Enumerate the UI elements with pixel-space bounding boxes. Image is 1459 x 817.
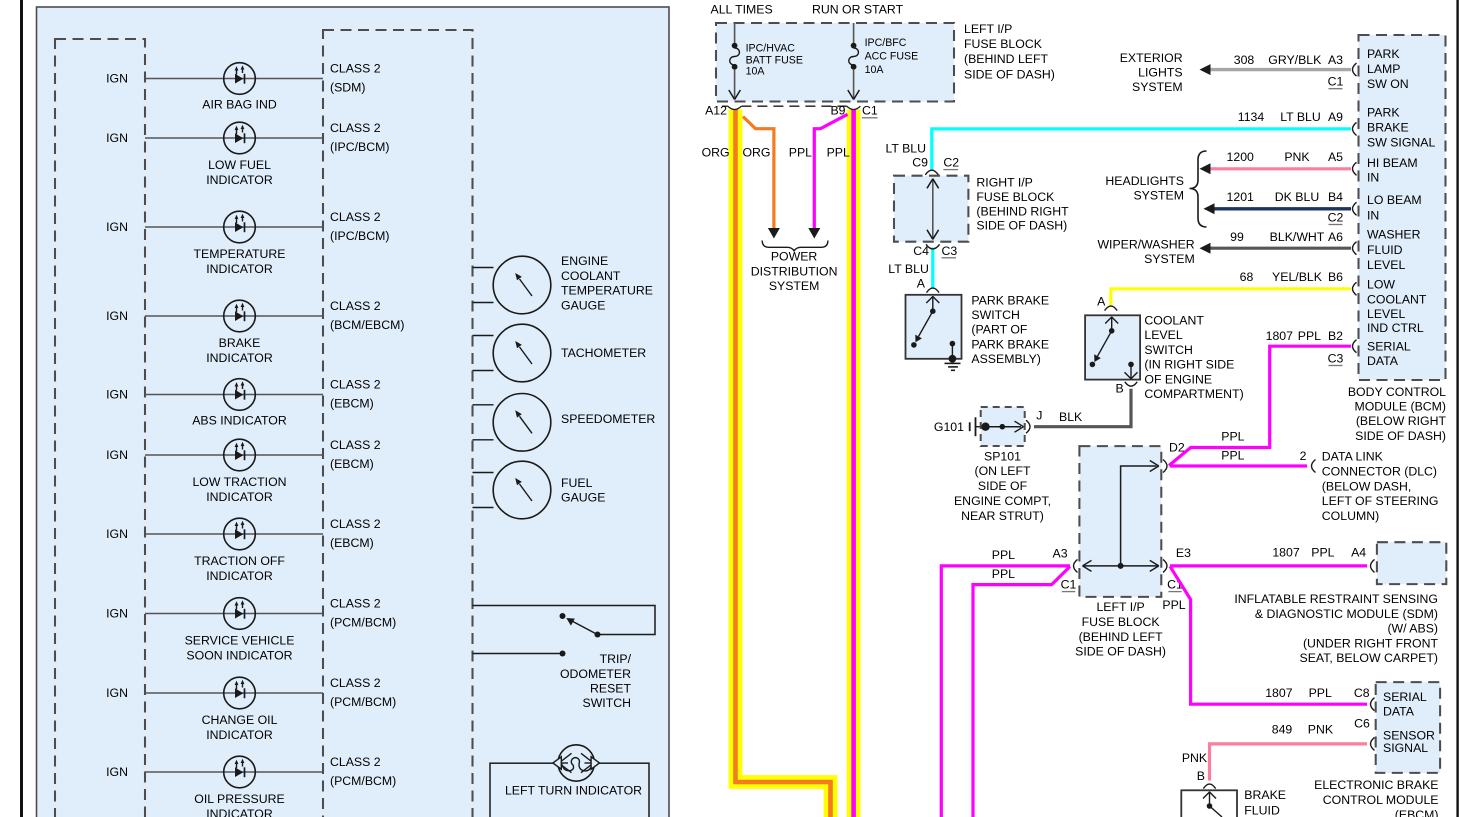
- svg-text:CLASS 2: CLASS 2: [330, 755, 381, 769]
- svg-text:B4: B4: [1328, 190, 1343, 204]
- svg-text:LEVEL: LEVEL: [1144, 328, 1182, 342]
- svg-text:POWER: POWER: [771, 250, 818, 264]
- svg-text:SIDE OF DASH): SIDE OF DASH): [1075, 645, 1166, 659]
- svg-text:CLASS 2: CLASS 2: [330, 210, 381, 224]
- svg-text:SYSTEM: SYSTEM: [769, 279, 820, 293]
- svg-text:IN: IN: [1367, 171, 1379, 185]
- svg-text:ACC FUSE: ACC FUSE: [865, 50, 919, 62]
- svg-text:(SDM): (SDM): [330, 81, 366, 95]
- svg-text:BLK: BLK: [1059, 410, 1083, 424]
- svg-text:ODOMETER: ODOMETER: [560, 667, 631, 681]
- svg-text:(IPC/BCM): (IPC/BCM): [330, 140, 389, 154]
- svg-text:1134: 1134: [1238, 110, 1265, 124]
- svg-text:(EBCM): (EBCM): [1395, 808, 1439, 817]
- svg-text:ENGINE: ENGINE: [561, 254, 608, 268]
- svg-text:IGN: IGN: [106, 607, 128, 621]
- svg-text:C1: C1: [1061, 578, 1077, 592]
- svg-text:A: A: [917, 276, 926, 290]
- svg-text:IND CTRL: IND CTRL: [1367, 321, 1424, 335]
- svg-text:PPL: PPL: [992, 548, 1015, 562]
- svg-text:PPL: PPL: [1221, 448, 1244, 462]
- svg-text:FUSE BLOCK: FUSE BLOCK: [964, 37, 1043, 51]
- svg-text:IGN: IGN: [106, 131, 128, 145]
- svg-text:CONNECTOR (DLC): CONNECTOR (DLC): [1322, 464, 1437, 478]
- svg-text:BRAKE: BRAKE: [1367, 121, 1409, 135]
- svg-text:COOLANT: COOLANT: [1367, 293, 1427, 307]
- svg-text:LEFT OF STEERING: LEFT OF STEERING: [1322, 494, 1439, 508]
- svg-text:A6: A6: [1328, 230, 1343, 244]
- svg-text:SERVICE VEHICLE: SERVICE VEHICLE: [185, 634, 295, 648]
- svg-text:FUEL: FUEL: [561, 476, 593, 490]
- svg-text:LOW FUEL: LOW FUEL: [208, 158, 271, 172]
- svg-text:(PCM/BCM): (PCM/BCM): [330, 616, 396, 630]
- svg-text:(IN RIGHT SIDE: (IN RIGHT SIDE: [1144, 358, 1234, 372]
- svg-text:OF ENGINE: OF ENGINE: [1144, 372, 1212, 386]
- svg-text:99: 99: [1230, 230, 1244, 244]
- svg-text:(IPC/BCM): (IPC/BCM): [330, 229, 389, 243]
- svg-text:COLUMN): COLUMN): [1322, 509, 1379, 523]
- svg-text:J: J: [1036, 409, 1042, 423]
- svg-text:B: B: [1197, 769, 1205, 783]
- svg-text:FUSE BLOCK: FUSE BLOCK: [976, 190, 1055, 204]
- svg-text:LEFT I/P: LEFT I/P: [1096, 600, 1144, 614]
- svg-text:SIGNAL: SIGNAL: [1383, 741, 1428, 755]
- svg-text:IGN: IGN: [106, 220, 128, 234]
- svg-text:SIDE OF DASH): SIDE OF DASH): [976, 219, 1067, 233]
- svg-text:IPC/HVAC: IPC/HVAC: [746, 42, 796, 54]
- svg-text:SEAT, BELOW CARPET): SEAT, BELOW CARPET): [1300, 651, 1438, 665]
- svg-text:C1: C1: [862, 104, 878, 118]
- svg-text:RESET: RESET: [590, 681, 631, 695]
- svg-text:IN: IN: [1367, 209, 1379, 223]
- svg-text:2: 2: [1300, 449, 1307, 463]
- svg-text:(EBCM): (EBCM): [330, 536, 374, 550]
- svg-text:A4: A4: [1351, 545, 1366, 559]
- svg-text:LOW: LOW: [1367, 278, 1395, 292]
- svg-text:68: 68: [1240, 270, 1254, 284]
- svg-text:AIR BAG IND: AIR BAG IND: [202, 98, 277, 112]
- svg-text:PPL: PPL: [1311, 545, 1334, 559]
- svg-text:TEMPERATURE: TEMPERATURE: [193, 247, 285, 261]
- svg-text:TRACTION OFF: TRACTION OFF: [194, 554, 285, 568]
- svg-text:DATA: DATA: [1367, 354, 1399, 368]
- svg-text:1201: 1201: [1227, 190, 1255, 204]
- svg-text:A12: A12: [705, 104, 727, 118]
- svg-text:849: 849: [1272, 723, 1293, 737]
- svg-text:IGN: IGN: [106, 765, 128, 779]
- svg-text:TEMPERATURE: TEMPERATURE: [561, 284, 653, 298]
- svg-text:LAMP: LAMP: [1367, 62, 1401, 76]
- svg-text:INDICATOR: INDICATOR: [206, 728, 273, 742]
- svg-text:A: A: [1097, 295, 1106, 309]
- svg-text:FLUID: FLUID: [1367, 243, 1403, 257]
- svg-text:PPL: PPL: [1221, 430, 1244, 444]
- svg-text:INDICATOR: INDICATOR: [206, 173, 273, 187]
- svg-text:SW ON: SW ON: [1367, 77, 1409, 91]
- svg-text:& DIAGNOSTIC MODULE (SDM): & DIAGNOSTIC MODULE (SDM): [1255, 607, 1438, 621]
- svg-text:WASHER: WASHER: [1367, 228, 1421, 242]
- svg-text:B6: B6: [1328, 270, 1343, 284]
- svg-text:IGN: IGN: [106, 309, 128, 323]
- svg-text:ASSEMBLY): ASSEMBLY): [971, 352, 1040, 366]
- svg-text:(PCM/BCM): (PCM/BCM): [330, 695, 396, 709]
- svg-text:DATA LINK: DATA LINK: [1322, 450, 1384, 464]
- svg-text:G101: G101: [934, 420, 964, 434]
- svg-text:A3: A3: [1053, 547, 1068, 561]
- svg-text:CLASS 2: CLASS 2: [330, 378, 381, 392]
- svg-text:DISTRIBUTION: DISTRIBUTION: [751, 264, 838, 278]
- svg-text:WIPER/WASHER: WIPER/WASHER: [1097, 237, 1194, 251]
- svg-text:IGN: IGN: [106, 448, 128, 462]
- svg-text:INDICATOR: INDICATOR: [206, 490, 273, 504]
- svg-text:CHANGE OIL: CHANGE OIL: [202, 713, 278, 727]
- svg-text:TRIP/: TRIP/: [600, 652, 632, 666]
- svg-text:ABS INDICATOR: ABS INDICATOR: [192, 414, 287, 428]
- svg-text:C2: C2: [943, 156, 959, 170]
- svg-text:(BEHIND LEFT: (BEHIND LEFT: [1079, 630, 1164, 644]
- svg-text:CLASS 2: CLASS 2: [330, 121, 381, 135]
- svg-text:ALL TIMES: ALL TIMES: [711, 2, 773, 16]
- svg-text:CLASS 2: CLASS 2: [330, 676, 381, 690]
- svg-text:D2: D2: [1169, 440, 1185, 454]
- svg-text:(BEHIND RIGHT: (BEHIND RIGHT: [976, 204, 1069, 218]
- svg-text:(W/ ABS): (W/ ABS): [1387, 622, 1438, 636]
- svg-text:INDICATOR: INDICATOR: [206, 351, 273, 365]
- svg-text:A9: A9: [1328, 110, 1343, 124]
- svg-text:COOLANT: COOLANT: [561, 269, 621, 283]
- svg-text:C3: C3: [942, 244, 958, 258]
- svg-text:MODULE (BCM): MODULE (BCM): [1354, 400, 1446, 414]
- svg-text:(EBCM): (EBCM): [330, 397, 374, 411]
- svg-text:E3: E3: [1176, 546, 1191, 560]
- svg-text:PPL: PPL: [1162, 598, 1185, 612]
- svg-text:BODY CONTROL: BODY CONTROL: [1348, 385, 1446, 399]
- svg-text:INDICATOR: INDICATOR: [206, 569, 273, 583]
- svg-text:1200: 1200: [1227, 150, 1255, 164]
- svg-text:SIDE OF DASH): SIDE OF DASH): [964, 67, 1055, 81]
- svg-text:PARK BRAKE: PARK BRAKE: [971, 337, 1049, 351]
- svg-text:CLASS 2: CLASS 2: [330, 597, 381, 611]
- svg-text:HEADLIGHTS: HEADLIGHTS: [1105, 174, 1184, 188]
- svg-text:(PCM/BCM): (PCM/BCM): [330, 774, 396, 788]
- svg-text:SIDE OF DASH): SIDE OF DASH): [1355, 429, 1446, 443]
- svg-text:PARK BRAKE: PARK BRAKE: [971, 294, 1049, 308]
- svg-text:SERIAL: SERIAL: [1367, 340, 1411, 354]
- svg-text:FLUID: FLUID: [1244, 804, 1280, 817]
- svg-text:PNK: PNK: [1284, 150, 1310, 164]
- svg-text:LIGHTS: LIGHTS: [1138, 66, 1182, 80]
- svg-text:(EBCM): (EBCM): [330, 457, 374, 471]
- svg-text:INFLATABLE RESTRAINT SENSING: INFLATABLE RESTRAINT SENSING: [1234, 592, 1438, 606]
- svg-text:LOW TRACTION: LOW TRACTION: [192, 475, 286, 489]
- svg-text:C9: C9: [912, 156, 928, 170]
- svg-text:SWITCH: SWITCH: [583, 696, 632, 710]
- svg-text:CLASS 2: CLASS 2: [330, 438, 381, 452]
- svg-text:LEVEL: LEVEL: [1367, 258, 1405, 272]
- svg-text:CLASS 2: CLASS 2: [330, 62, 381, 76]
- svg-text:IGN: IGN: [106, 686, 128, 700]
- svg-text:PPL: PPL: [827, 145, 850, 159]
- svg-text:SYSTEM: SYSTEM: [1132, 80, 1183, 94]
- svg-text:SPEEDOMETER: SPEEDOMETER: [561, 412, 655, 426]
- svg-text:PARK: PARK: [1367, 106, 1400, 120]
- svg-text:(ON LEFT: (ON LEFT: [974, 464, 1031, 478]
- svg-text:PNK: PNK: [1308, 723, 1334, 737]
- svg-text:PPL: PPL: [992, 567, 1015, 581]
- svg-text:10A: 10A: [865, 64, 885, 76]
- svg-text:SW SIGNAL: SW SIGNAL: [1367, 136, 1435, 150]
- svg-text:GAUGE: GAUGE: [561, 298, 605, 312]
- svg-text:(BEHIND LEFT: (BEHIND LEFT: [964, 52, 1049, 66]
- svg-text:SWITCH: SWITCH: [1144, 343, 1193, 357]
- svg-text:GAUGE: GAUGE: [561, 491, 605, 505]
- svg-text:SYSTEM: SYSTEM: [1133, 189, 1184, 203]
- svg-text:LEFT TURN INDICATOR: LEFT TURN INDICATOR: [505, 784, 642, 798]
- svg-text:SOON INDICATOR: SOON INDICATOR: [186, 649, 292, 663]
- svg-text:LT BLU: LT BLU: [885, 142, 926, 156]
- svg-text:LT BLU: LT BLU: [888, 262, 929, 276]
- svg-text:SP101: SP101: [984, 449, 1021, 463]
- svg-text:C1: C1: [1328, 75, 1344, 89]
- svg-text:RIGHT I/P: RIGHT I/P: [976, 176, 1032, 190]
- svg-text:INDICATOR: INDICATOR: [206, 262, 273, 276]
- svg-text:SIDE OF: SIDE OF: [978, 479, 1028, 493]
- svg-text:1807: 1807: [1265, 686, 1293, 700]
- svg-text:SERIAL: SERIAL: [1383, 690, 1427, 704]
- svg-text:CLASS 2: CLASS 2: [330, 517, 381, 531]
- svg-text:LT BLU: LT BLU: [1280, 110, 1321, 124]
- svg-text:IGN: IGN: [106, 388, 128, 402]
- svg-text:PPL: PPL: [1298, 329, 1321, 343]
- svg-text:TACHOMETER: TACHOMETER: [561, 346, 646, 360]
- svg-text:PARK: PARK: [1367, 47, 1400, 61]
- svg-text:A3: A3: [1328, 53, 1343, 67]
- svg-text:OIL PRESSURE: OIL PRESSURE: [194, 792, 284, 806]
- svg-text:EXTERIOR: EXTERIOR: [1120, 51, 1183, 65]
- svg-text:LEVEL: LEVEL: [1367, 307, 1405, 321]
- svg-text:DATA: DATA: [1383, 705, 1415, 719]
- svg-text:(BELOW DASH,: (BELOW DASH,: [1322, 479, 1412, 493]
- svg-text:ELECTRONIC BRAKE: ELECTRONIC BRAKE: [1314, 778, 1438, 792]
- svg-text:NEAR STRUT): NEAR STRUT): [961, 509, 1044, 523]
- svg-text:(UNDER RIGHT FRONT: (UNDER RIGHT FRONT: [1303, 636, 1439, 650]
- svg-text:10A: 10A: [746, 65, 766, 77]
- svg-text:1807: 1807: [1272, 545, 1300, 559]
- svg-text:BRAKE: BRAKE: [219, 336, 261, 350]
- svg-text:COMPARTMENT): COMPARTMENT): [1144, 387, 1243, 401]
- svg-text:(BELOW RIGHT: (BELOW RIGHT: [1356, 414, 1447, 428]
- svg-text:HI BEAM: HI BEAM: [1367, 156, 1418, 170]
- svg-text:ORG: ORG: [702, 145, 730, 159]
- svg-text:308: 308: [1234, 53, 1255, 67]
- svg-text:PNK: PNK: [1182, 751, 1208, 765]
- svg-text:B: B: [1115, 382, 1123, 396]
- svg-text:FUSE BLOCK: FUSE BLOCK: [1082, 615, 1161, 629]
- svg-text:IGN: IGN: [106, 72, 128, 86]
- svg-text:PPL: PPL: [789, 145, 812, 159]
- svg-text:IPC/BFC: IPC/BFC: [865, 37, 907, 49]
- svg-text:SWITCH: SWITCH: [971, 308, 1020, 322]
- svg-text:C8: C8: [1354, 686, 1370, 700]
- svg-text:INDICATOR: INDICATOR: [206, 807, 273, 817]
- svg-text:C3: C3: [1328, 352, 1344, 366]
- svg-text:GRY/BLK: GRY/BLK: [1268, 53, 1322, 67]
- svg-text:C6: C6: [1354, 717, 1370, 731]
- svg-text:1807: 1807: [1266, 329, 1294, 343]
- svg-text:(PART OF: (PART OF: [971, 323, 1028, 337]
- svg-text:CLASS 2: CLASS 2: [330, 299, 381, 313]
- svg-text:RUN OR START: RUN OR START: [812, 2, 904, 16]
- svg-text:LEFT I/P: LEFT I/P: [964, 22, 1012, 36]
- svg-text:(BCM/EBCM): (BCM/EBCM): [330, 318, 404, 332]
- svg-text:C2: C2: [1328, 211, 1344, 225]
- svg-text:COOLANT: COOLANT: [1144, 314, 1204, 328]
- svg-text:A5: A5: [1328, 150, 1343, 164]
- svg-text:ORG: ORG: [742, 145, 770, 159]
- svg-text:BRAKE: BRAKE: [1244, 788, 1286, 802]
- svg-text:IGN: IGN: [106, 527, 128, 541]
- svg-text:CONTROL MODULE: CONTROL MODULE: [1323, 793, 1439, 807]
- svg-text:BLK/WHT: BLK/WHT: [1270, 230, 1325, 244]
- svg-text:SYSTEM: SYSTEM: [1144, 252, 1195, 266]
- svg-text:DK BLU: DK BLU: [1275, 190, 1319, 204]
- svg-text:YEL/BLK: YEL/BLK: [1272, 270, 1323, 284]
- svg-text:ENGINE COMPT,: ENGINE COMPT,: [954, 494, 1051, 508]
- svg-text:B2: B2: [1328, 329, 1343, 343]
- svg-text:LO BEAM: LO BEAM: [1367, 193, 1422, 207]
- svg-text:PPL: PPL: [1309, 686, 1332, 700]
